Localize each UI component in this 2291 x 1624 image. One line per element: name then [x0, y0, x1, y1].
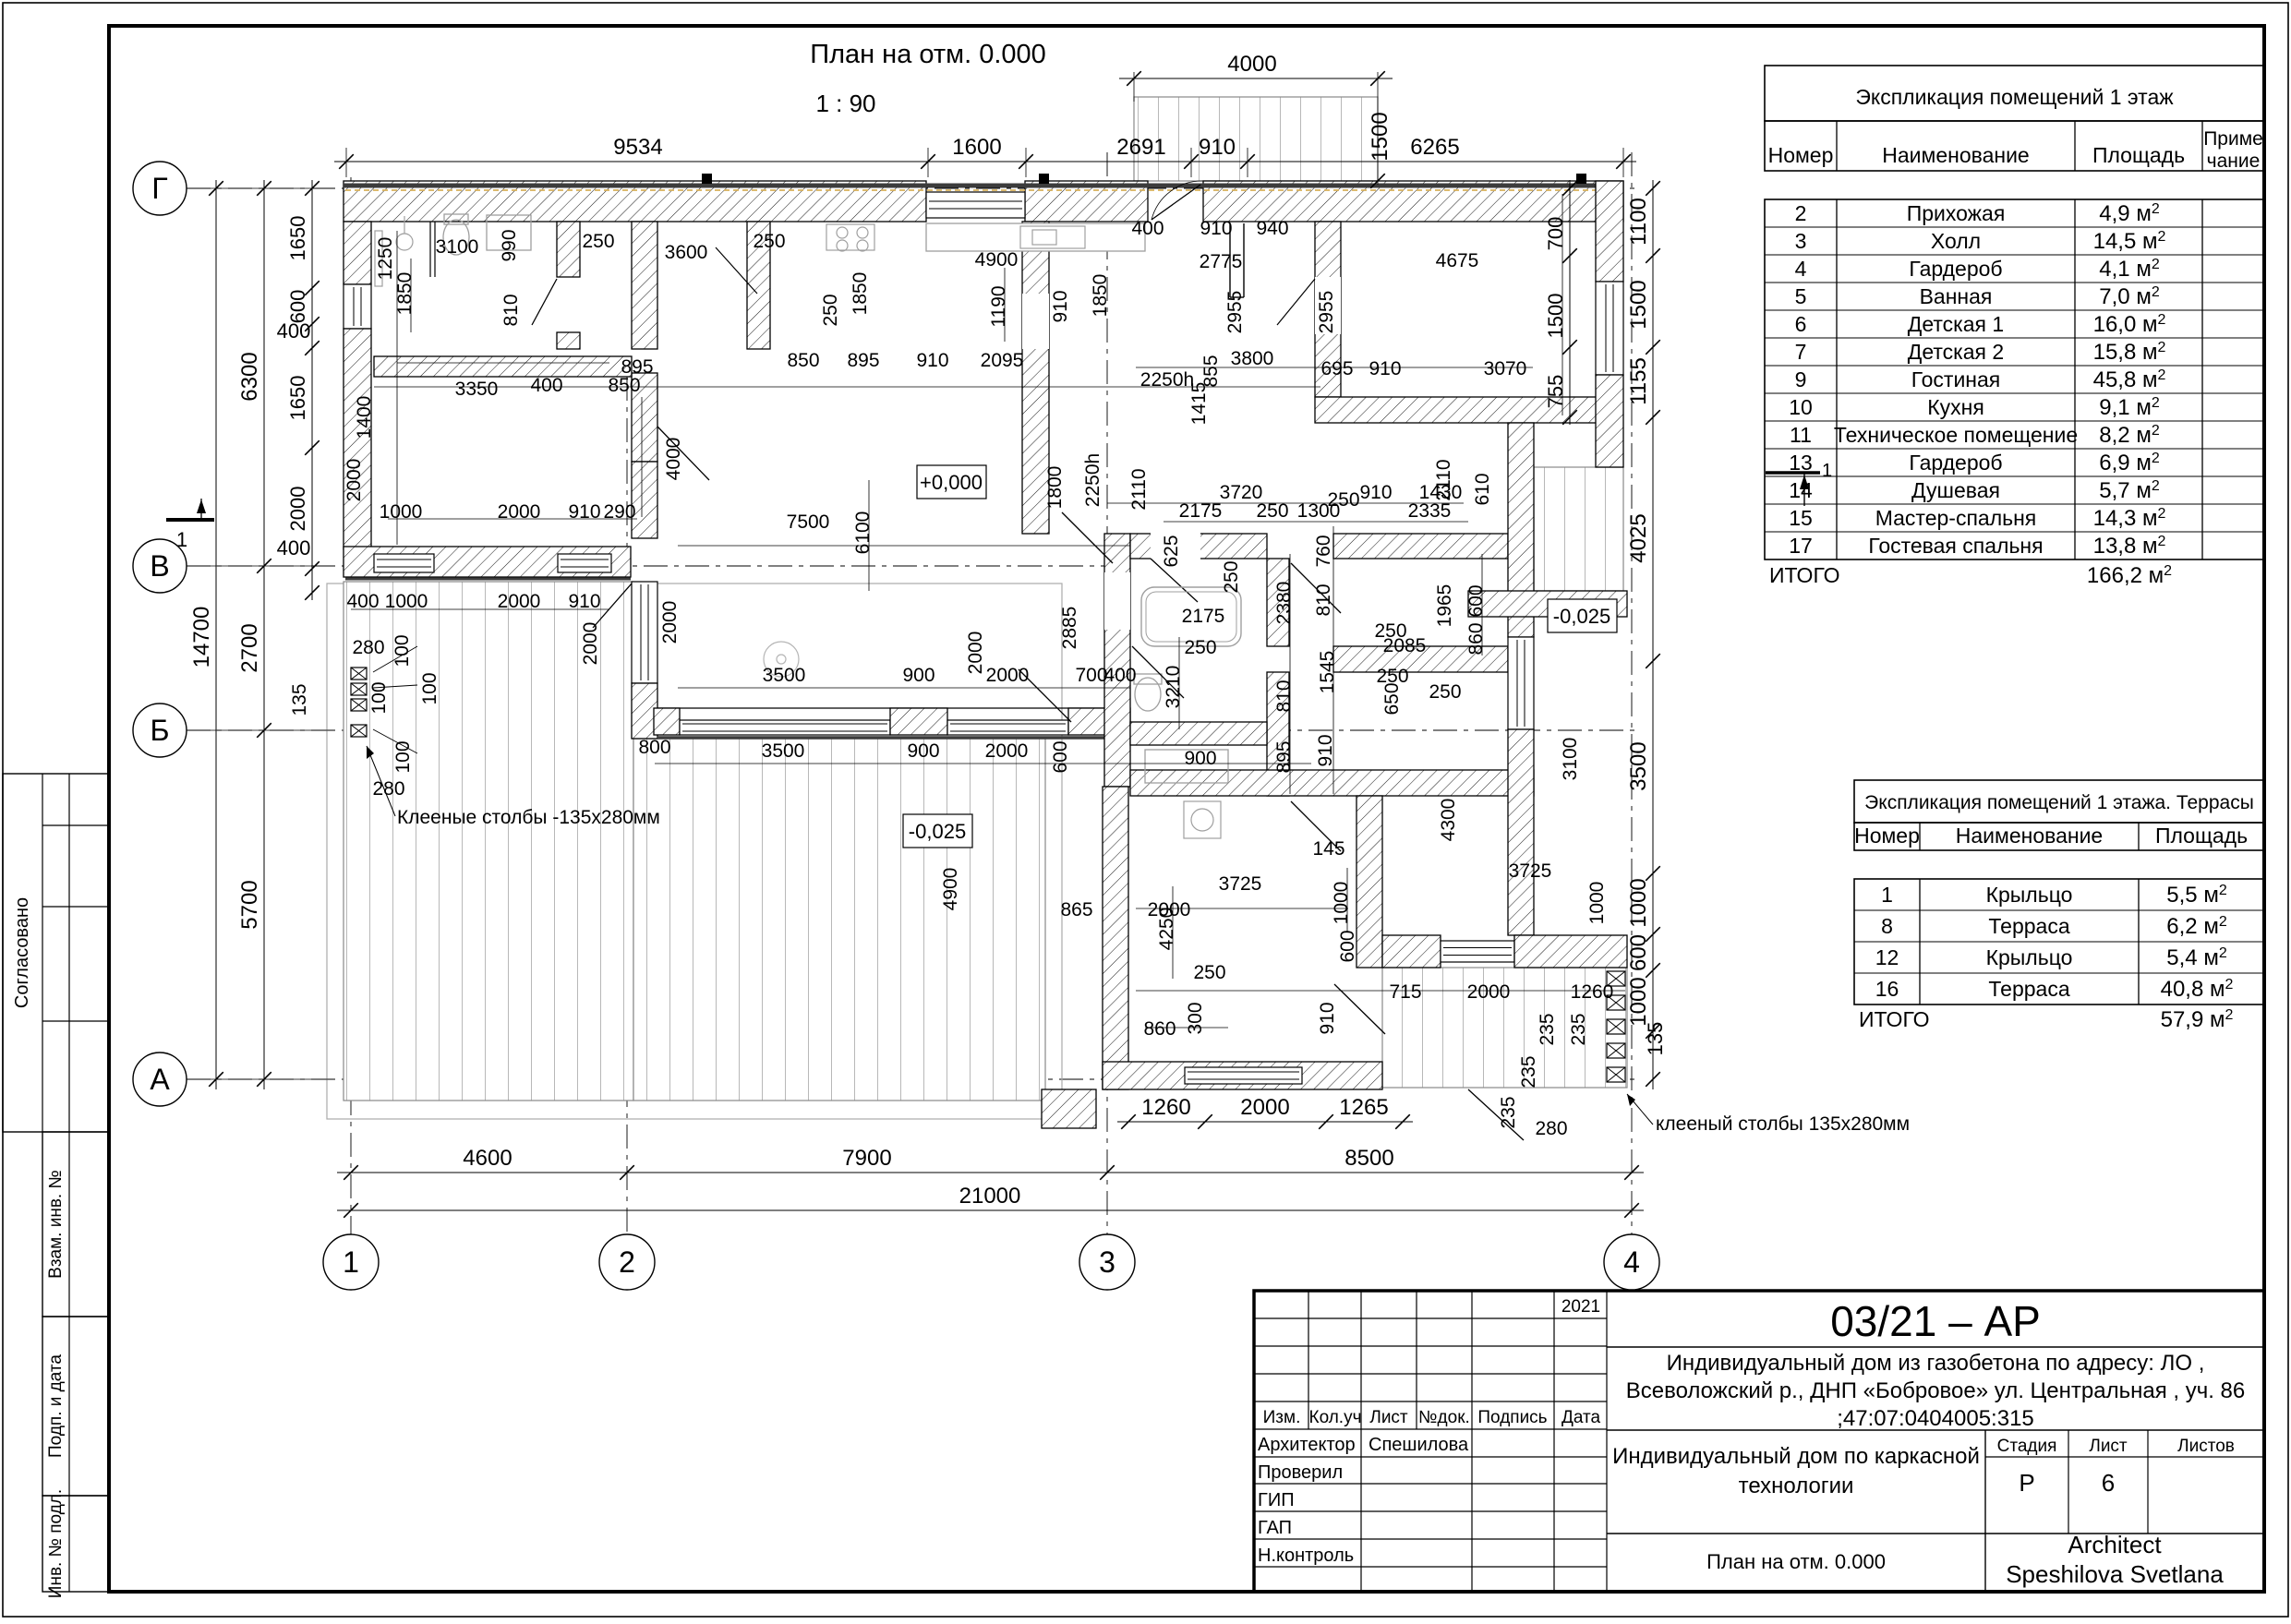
svg-text:2000: 2000: [1148, 899, 1191, 920]
svg-text:235: 235: [1537, 1013, 1558, 1045]
svg-text:11: 11: [1790, 423, 1812, 447]
svg-text:8,2 м2: 8,2 м2: [2099, 423, 2160, 448]
svg-text:800: 800: [638, 737, 670, 758]
svg-text:2000: 2000: [344, 459, 365, 502]
svg-text:625: 625: [1161, 535, 1182, 567]
svg-text:3350: 3350: [455, 379, 499, 400]
svg-text:250: 250: [1429, 681, 1461, 703]
svg-text:2775: 2775: [1200, 251, 1243, 272]
svg-text:Проверил: Проверил: [1258, 1462, 1343, 1483]
svg-text:9534: 9534: [613, 135, 662, 160]
svg-text:5,4 м2: 5,4 м2: [2166, 945, 2227, 970]
svg-text:2380: 2380: [1273, 582, 1295, 625]
svg-text:ИТОГО: ИТОГО: [1769, 563, 1840, 587]
svg-text:Крыльцо: Крыльцо: [1986, 883, 2073, 907]
svg-text:6,9 м2: 6,9 м2: [2099, 451, 2160, 475]
svg-text:Speshilova Svetlana: Speshilova Svetlana: [2006, 1560, 2224, 1588]
svg-text:1000: 1000: [380, 501, 423, 523]
svg-text:13: 13: [1789, 451, 1813, 475]
svg-text:3: 3: [1099, 1245, 1115, 1279]
svg-text:895: 895: [621, 356, 653, 378]
svg-text:Гостиная: Гостиная: [1911, 367, 2001, 391]
svg-text:Клееные столбы -135x280мм: Клееные столбы -135x280мм: [397, 807, 660, 828]
svg-text:235: 235: [1498, 1096, 1519, 1128]
svg-text:910: 910: [1050, 290, 1071, 322]
svg-text:250: 250: [1193, 962, 1225, 983]
svg-text:280: 280: [352, 637, 384, 658]
svg-text:3800: 3800: [1231, 348, 1274, 369]
svg-text:5700: 5700: [237, 880, 262, 929]
svg-text:Гардероб: Гардероб: [1909, 257, 2002, 281]
svg-text:3: 3: [1795, 229, 1807, 253]
svg-text:895: 895: [847, 350, 879, 371]
svg-text:910: 910: [568, 591, 600, 612]
svg-text:Г: Г: [151, 172, 167, 205]
svg-text:166,2 м2: 166,2 м2: [2087, 563, 2172, 588]
svg-text:5,5 м2: 5,5 м2: [2166, 883, 2227, 908]
svg-text:4025: 4025: [1626, 513, 1651, 562]
svg-text:1265: 1265: [1339, 1095, 1388, 1120]
svg-text:В: В: [150, 549, 169, 583]
svg-text:400: 400: [277, 536, 311, 559]
svg-text:6: 6: [2102, 1469, 2115, 1497]
svg-text:7500: 7500: [787, 511, 830, 533]
svg-text:910: 910: [568, 501, 600, 523]
svg-text:Гардероб: Гардероб: [1909, 451, 2002, 475]
svg-text:3210: 3210: [1163, 666, 1184, 709]
svg-text:Экспликация помещений 1 этаж: Экспликация помещений 1 этаж: [1855, 85, 2174, 109]
svg-text:2955: 2955: [1316, 291, 1337, 334]
svg-text:Наименование: Наименование: [1956, 824, 2103, 848]
svg-text:15: 15: [1789, 506, 1813, 530]
svg-text:4000: 4000: [1227, 52, 1276, 77]
svg-text:990: 990: [499, 229, 520, 261]
svg-text:145: 145: [1312, 838, 1344, 860]
svg-text:250: 250: [582, 231, 614, 252]
svg-text:2700: 2700: [237, 623, 262, 672]
svg-text:Лист: Лист: [2089, 1437, 2128, 1456]
svg-text:900: 900: [1184, 748, 1216, 769]
svg-text:1100: 1100: [1626, 198, 1651, 246]
svg-text:860: 860: [1465, 622, 1487, 655]
svg-text:1 : 90: 1 : 90: [815, 90, 875, 117]
svg-text:Номер: Номер: [1768, 143, 1834, 167]
svg-text:2110: 2110: [1128, 468, 1150, 510]
svg-text:280: 280: [372, 778, 404, 800]
svg-text:57,9 м2: 57,9 м2: [2161, 1007, 2234, 1032]
svg-text:4600: 4600: [463, 1146, 512, 1171]
svg-text:7,0 м2: 7,0 м2: [2099, 284, 2160, 309]
svg-text:Architect: Architect: [2068, 1531, 2162, 1558]
svg-text:21000: 21000: [959, 1184, 1021, 1209]
svg-text:А: А: [150, 1063, 170, 1096]
svg-text:Гостевая спальня: Гостевая спальня: [1868, 534, 2043, 558]
svg-text:100: 100: [419, 672, 440, 704]
svg-text:;47:07:0404005:315: ;47:07:0404005:315: [1837, 1406, 2034, 1431]
svg-text:Техническое помещение: Техническое помещение: [1834, 423, 2078, 447]
svg-text:Детская 1: Детская 1: [1908, 312, 2004, 336]
svg-text:810: 810: [1313, 583, 1334, 616]
svg-text:2175: 2175: [1179, 500, 1223, 522]
svg-text:400: 400: [346, 591, 379, 612]
svg-text:14,3 м2: 14,3 м2: [2093, 506, 2166, 531]
svg-text:2: 2: [619, 1245, 635, 1279]
svg-text:4,9 м2: 4,9 м2: [2099, 201, 2160, 226]
svg-text:715: 715: [1389, 981, 1421, 1003]
svg-text:1850: 1850: [394, 272, 416, 316]
svg-text:Площадь: Площадь: [2155, 824, 2248, 848]
svg-text:12: 12: [1875, 945, 1899, 969]
svg-text:610: 610: [1472, 473, 1493, 505]
svg-text:Наименование: Наименование: [1882, 143, 2029, 167]
svg-text:1000: 1000: [1626, 977, 1651, 1026]
svg-text:5: 5: [1795, 284, 1807, 308]
svg-text:1: 1: [1822, 461, 1832, 481]
svg-text:280: 280: [1535, 1118, 1567, 1139]
svg-text:Дата: Дата: [1561, 1408, 1601, 1427]
svg-text:850: 850: [787, 350, 819, 371]
svg-text:2095: 2095: [981, 350, 1024, 371]
svg-text:2175: 2175: [1182, 606, 1225, 627]
svg-text:250: 250: [820, 294, 841, 326]
svg-text:Терраса: Терраса: [1988, 914, 2069, 938]
svg-text:1850: 1850: [1090, 274, 1111, 318]
svg-text:14,5 м2: 14,5 м2: [2093, 229, 2166, 254]
svg-text:250: 250: [753, 231, 785, 252]
svg-text:Н.контроль: Н.контроль: [1258, 1546, 1354, 1566]
svg-text:895: 895: [1273, 740, 1295, 773]
svg-text:1650: 1650: [286, 376, 309, 421]
svg-text:Р: Р: [2019, 1469, 2034, 1497]
svg-text:235: 235: [1518, 1055, 1539, 1088]
svg-text:13,8 м2: 13,8 м2: [2093, 534, 2166, 559]
svg-text:Мастер-спальня: Мастер-спальня: [1875, 506, 2037, 530]
svg-text:16,0 м2: 16,0 м2: [2093, 312, 2166, 337]
svg-text:5,7 м2: 5,7 м2: [2099, 478, 2160, 503]
svg-text:600: 600: [1626, 934, 1651, 971]
svg-text:2000: 2000: [580, 622, 601, 666]
svg-text:Согласовано: Согласовано: [12, 897, 32, 1008]
svg-text:1500: 1500: [1626, 280, 1651, 329]
svg-text:2000: 2000: [286, 487, 309, 532]
svg-text:695: 695: [1320, 358, 1353, 379]
svg-text:2000: 2000: [1467, 981, 1511, 1003]
svg-text:910: 910: [1369, 358, 1401, 379]
svg-text:3725: 3725: [1509, 860, 1552, 882]
svg-text:910: 910: [1315, 734, 1336, 766]
svg-text:45,8 м2: 45,8 м2: [2093, 367, 2166, 392]
svg-text:10: 10: [1789, 395, 1813, 419]
svg-text:300: 300: [1185, 1002, 1206, 1034]
svg-text:8500: 8500: [1344, 1146, 1393, 1171]
svg-text:8: 8: [1881, 914, 1893, 938]
svg-text:1500: 1500: [1544, 294, 1567, 339]
svg-text:Б: Б: [151, 714, 170, 747]
svg-text:Ванная: Ванная: [1920, 284, 1993, 308]
svg-text:1: 1: [176, 528, 187, 551]
svg-text:6300: 6300: [237, 352, 262, 401]
svg-text:600: 600: [1337, 930, 1358, 962]
svg-text:2: 2: [1795, 201, 1807, 225]
svg-text:клееный столбы 135x280мм: клееный столбы 135x280мм: [1656, 1113, 1910, 1135]
svg-text:Терраса: Терраса: [1988, 977, 2069, 1001]
svg-text:№док.: №док.: [1418, 1408, 1470, 1427]
svg-text:900: 900: [902, 665, 934, 686]
svg-text:Инв. № подл.: Инв. № подл.: [46, 1489, 66, 1598]
svg-text:Всеволожский р., ДНП «Бобровое: Всеволожский р., ДНП «Бобровое» ул. Цент…: [1626, 1378, 2245, 1403]
svg-text:2000: 2000: [965, 632, 986, 675]
svg-text:Стадия: Стадия: [1997, 1437, 2057, 1456]
svg-text:1800: 1800: [1044, 466, 1066, 510]
svg-text:855: 855: [1200, 355, 1222, 387]
svg-text:-0,025: -0,025: [909, 820, 966, 843]
svg-text:14: 14: [1789, 478, 1813, 502]
svg-text:400: 400: [1131, 218, 1164, 239]
svg-text:940: 940: [1256, 218, 1288, 239]
svg-text:3500: 3500: [762, 740, 805, 762]
svg-text:Детская 2: Детская 2: [1908, 340, 2004, 364]
svg-text:1000: 1000: [1331, 882, 1352, 925]
svg-text:910: 910: [916, 350, 948, 371]
svg-text:1650: 1650: [286, 216, 309, 261]
svg-text:ГИП: ГИП: [1258, 1490, 1295, 1510]
svg-text:Листов: Листов: [2177, 1437, 2235, 1456]
svg-text:865: 865: [1060, 899, 1092, 920]
svg-text:1250: 1250: [375, 237, 396, 281]
svg-text:40,8 м2: 40,8 м2: [2161, 977, 2234, 1002]
svg-text:Холл: Холл: [1931, 229, 1981, 253]
svg-text:6: 6: [1795, 312, 1807, 336]
svg-text:03/21 – АР: 03/21 – АР: [1830, 1297, 2041, 1345]
svg-text:700: 700: [1075, 665, 1107, 686]
svg-text:600: 600: [286, 290, 309, 324]
svg-text:755: 755: [1544, 375, 1567, 409]
svg-text:1190: 1190: [988, 285, 1009, 327]
svg-text:1965: 1965: [1434, 584, 1455, 628]
svg-text:2085: 2085: [1383, 635, 1427, 656]
svg-text:1260: 1260: [1571, 981, 1614, 1003]
svg-text:910: 910: [1317, 1002, 1338, 1034]
svg-text:3100: 3100: [436, 236, 479, 258]
svg-text:1000: 1000: [385, 591, 428, 612]
svg-text:400: 400: [530, 375, 562, 396]
svg-text:250: 250: [1327, 489, 1359, 511]
svg-text:3725: 3725: [1219, 873, 1262, 895]
svg-text:Архитектор: Архитектор: [1258, 1435, 1356, 1455]
svg-text:250: 250: [1256, 500, 1288, 522]
svg-text:700: 700: [1544, 217, 1567, 251]
svg-text:2000: 2000: [1240, 1095, 1289, 1120]
svg-text:6,2 м2: 6,2 м2: [2166, 914, 2227, 939]
svg-text:1000: 1000: [1586, 882, 1608, 925]
svg-text:14700: 14700: [189, 607, 214, 668]
svg-text:ГАП: ГАП: [1258, 1518, 1292, 1538]
svg-text:250: 250: [1221, 560, 1242, 593]
svg-text:290: 290: [603, 501, 635, 523]
svg-text:1415: 1415: [1188, 382, 1210, 426]
svg-text:3100: 3100: [1560, 738, 1581, 781]
svg-text:650: 650: [1381, 682, 1403, 715]
svg-text:4,1 м2: 4,1 м2: [2099, 257, 2160, 282]
svg-text:600: 600: [1050, 740, 1071, 773]
svg-text:Индивидуальный дом по каркасно: Индивидуальный дом по каркасной: [1612, 1444, 1980, 1469]
svg-text:9,1 м2: 9,1 м2: [2099, 395, 2160, 420]
svg-text:2885: 2885: [1059, 607, 1080, 650]
svg-text:135: 135: [289, 683, 310, 716]
svg-text:План на отм. 0.000: План на отм. 0.000: [810, 40, 1046, 69]
svg-text:760: 760: [1313, 535, 1334, 567]
svg-text:910: 910: [1359, 482, 1392, 503]
svg-text:-0,025: -0,025: [1553, 605, 1610, 628]
svg-text:2955: 2955: [1224, 291, 1246, 334]
svg-text:15,8 м2: 15,8 м2: [2093, 340, 2166, 365]
svg-text:4000: 4000: [663, 438, 684, 481]
svg-text:7: 7: [1795, 340, 1807, 364]
svg-text:3500: 3500: [1626, 741, 1651, 790]
svg-text:1600: 1600: [952, 135, 1001, 160]
svg-text:235: 235: [1568, 1013, 1589, 1045]
svg-text:810: 810: [500, 294, 522, 326]
svg-text:400: 400: [277, 319, 311, 343]
svg-text:3600: 3600: [665, 242, 708, 263]
svg-text:9: 9: [1795, 367, 1807, 391]
svg-text:900: 900: [907, 740, 939, 762]
svg-text:4300: 4300: [1438, 799, 1459, 842]
svg-text:600: 600: [1465, 584, 1487, 617]
svg-text:2000: 2000: [498, 501, 541, 523]
svg-text:Крыльцо: Крыльцо: [1986, 945, 2073, 969]
svg-text:2250h: 2250h: [1140, 369, 1194, 391]
svg-text:1: 1: [1881, 883, 1893, 907]
svg-text:910: 910: [1199, 135, 1236, 160]
svg-text:Лист: Лист: [1369, 1408, 1408, 1427]
svg-text:6265: 6265: [1410, 135, 1459, 160]
svg-text:Взам. инв. №: Взам. инв. №: [46, 1170, 66, 1279]
svg-text:810: 810: [1273, 680, 1295, 712]
svg-text:Кухня: Кухня: [1927, 395, 1984, 419]
svg-text:2110: 2110: [1433, 459, 1454, 500]
svg-text:Кол.уч: Кол.уч: [1309, 1408, 1362, 1427]
svg-text:Спешилова: Спешилова: [1369, 1435, 1469, 1455]
svg-text:4675: 4675: [1436, 250, 1479, 271]
svg-text:Индивидуальный дом из газобето: Индивидуальный дом из газобетона по адре…: [1667, 1351, 2205, 1376]
svg-text:План на отм. 0.000: План на отм. 0.000: [1706, 1550, 1886, 1573]
svg-text:2000: 2000: [986, 665, 1030, 686]
svg-text:2021: 2021: [1561, 1297, 1600, 1317]
svg-text:2691: 2691: [1116, 135, 1165, 160]
svg-text:7900: 7900: [842, 1146, 891, 1171]
svg-text:1260: 1260: [1141, 1095, 1190, 1120]
svg-text:Приме: Приме: [2203, 128, 2263, 150]
svg-text:Номер: Номер: [1854, 824, 1920, 848]
svg-text:135: 135: [1644, 1022, 1667, 1056]
svg-text:3070: 3070: [1484, 358, 1527, 379]
svg-text:1500: 1500: [1368, 112, 1393, 161]
svg-text:ИТОГО: ИТОГО: [1859, 1007, 1930, 1031]
svg-text:2250h: 2250h: [1082, 453, 1103, 507]
svg-text:3500: 3500: [763, 665, 806, 686]
svg-text:1000: 1000: [1626, 878, 1651, 927]
svg-text:Экспликация помещений 1 этажа: Экспликация помещений 1 этажа. Террасы: [1864, 792, 2254, 813]
svg-text:1545: 1545: [1317, 651, 1338, 694]
svg-text:чание: чание: [2207, 150, 2261, 172]
svg-text:Площадь: Площадь: [2092, 143, 2185, 167]
svg-text:1400: 1400: [354, 396, 375, 439]
svg-text:1: 1: [343, 1245, 359, 1279]
svg-text:2000: 2000: [659, 601, 681, 644]
svg-text:400: 400: [1103, 665, 1136, 686]
svg-text:2335: 2335: [1408, 500, 1452, 522]
svg-text:Изм.: Изм.: [1263, 1408, 1301, 1427]
svg-text:Душевая: Душевая: [1911, 478, 2000, 502]
svg-text:Прихожая: Прихожая: [1907, 201, 2006, 225]
svg-text:4900: 4900: [975, 249, 1019, 271]
svg-text:технологии: технологии: [1739, 1474, 1854, 1498]
svg-text:Подпись: Подпись: [1477, 1408, 1547, 1427]
svg-text:250: 250: [1184, 637, 1216, 658]
svg-text:4: 4: [1623, 1245, 1640, 1279]
svg-text:850: 850: [608, 375, 640, 396]
svg-text:16: 16: [1875, 977, 1899, 1001]
svg-text:860: 860: [1143, 1018, 1176, 1040]
svg-text:17: 17: [1789, 534, 1813, 558]
svg-text:Подп. и дата: Подп. и дата: [46, 1354, 66, 1458]
svg-text:4: 4: [1795, 257, 1807, 281]
svg-text:910: 910: [1200, 218, 1232, 239]
svg-text:4900: 4900: [940, 868, 961, 911]
svg-text:1155: 1155: [1626, 357, 1651, 405]
svg-text:6100: 6100: [852, 511, 874, 555]
svg-text:1850: 1850: [850, 272, 871, 316]
svg-text:2000: 2000: [985, 740, 1029, 762]
svg-text:2000: 2000: [498, 591, 541, 612]
svg-text:+0,000: +0,000: [920, 471, 983, 494]
